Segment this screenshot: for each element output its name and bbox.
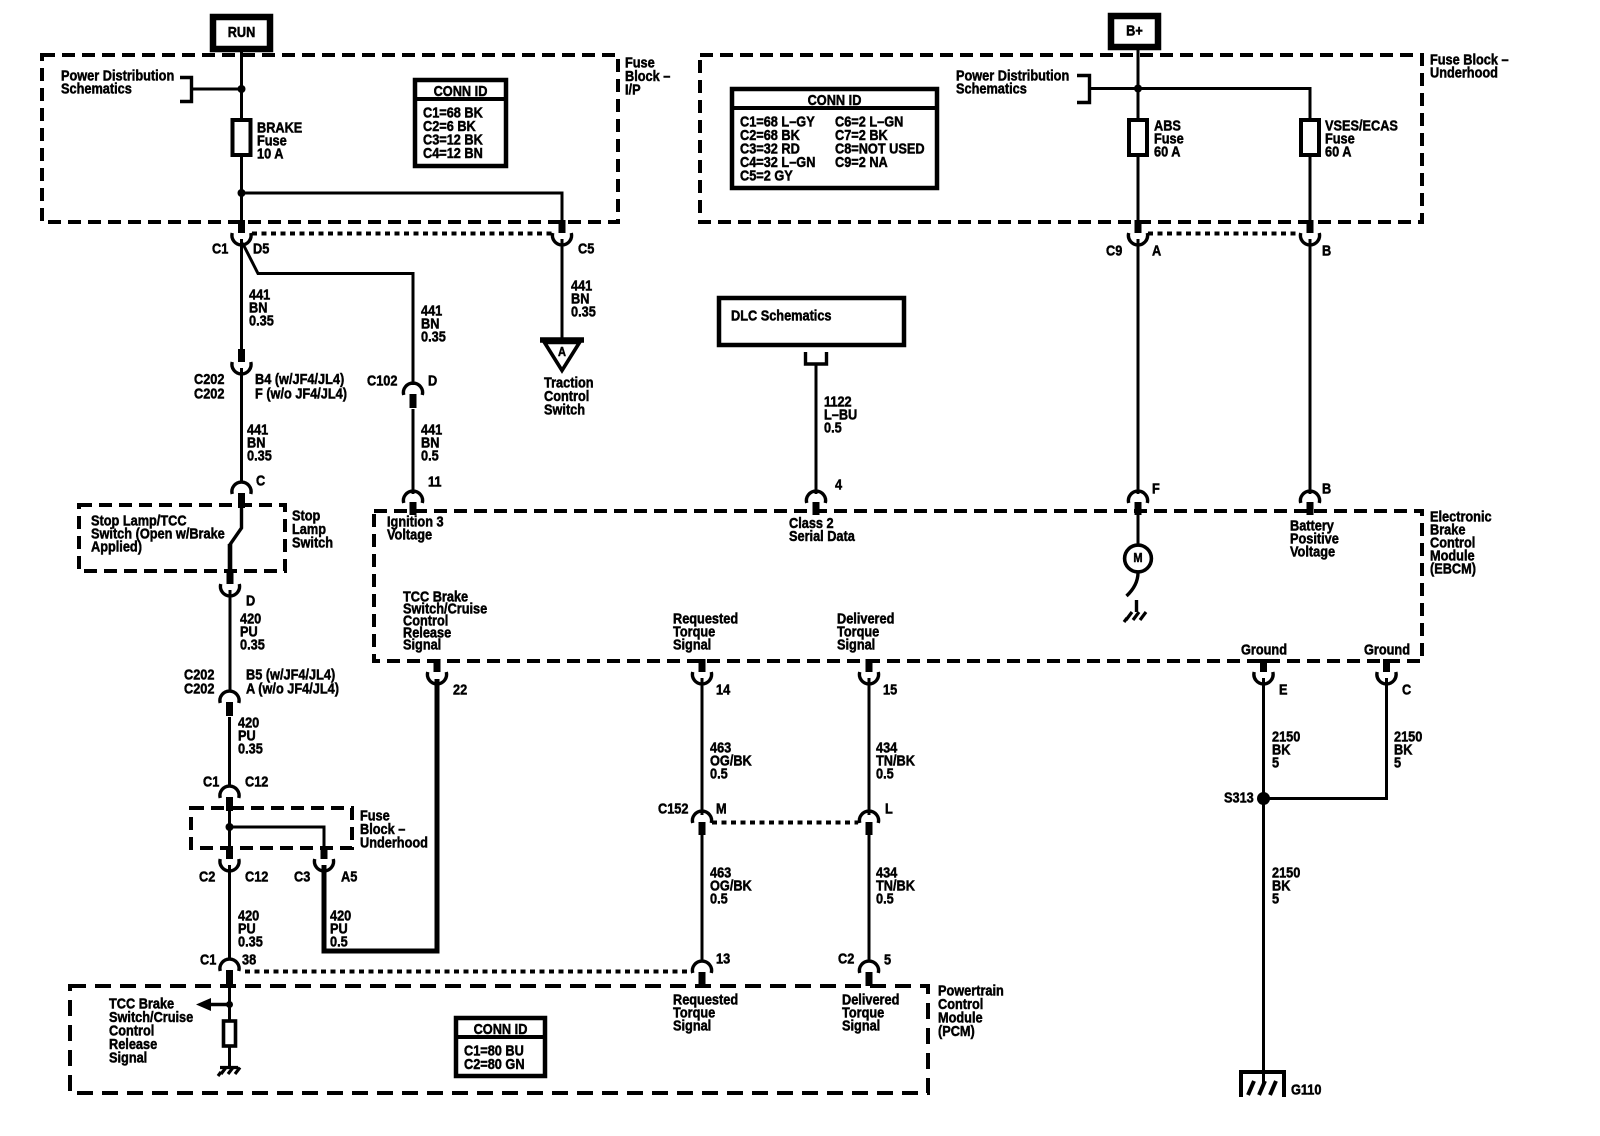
svg-text:RUN: RUN [228, 23, 256, 40]
svg-text:C: C [256, 471, 265, 488]
svg-text:M: M [716, 799, 727, 816]
wire B+ down [1137, 47, 1140, 120]
wire 441 BN 0.35 from C1 D5 down [240, 239, 243, 350]
wire bracket to B+ wire [1090, 87, 1139, 90]
wire 441 BN 0.35 to stop lamp switch [240, 368, 243, 483]
connector C152 M [692, 811, 711, 835]
node junction to C5 branch [238, 189, 246, 197]
svg-text:ABSFuse60 A: ABSFuse60 A [1154, 116, 1184, 159]
Powertrain Control Module dashed box [70, 986, 928, 1093]
dotted connector link C1 38 - 13 [245, 970, 692, 974]
svg-text:M: M [1133, 550, 1142, 565]
wire bracket to RUN wire [192, 88, 242, 91]
wire 463 OG/BK 0.5 upper [701, 678, 704, 815]
svg-text:B4 (w/JF4/JL4)F (w/o JF4/JL4): B4 (w/JF4/JL4)F (w/o JF4/JL4) [255, 370, 347, 402]
svg-text:CONN ID: CONN ID [474, 1020, 528, 1037]
wire ABS fuse to C9 A [1137, 155, 1140, 222]
svg-text:C12: C12 [245, 867, 269, 884]
svg-text:E: E [1279, 680, 1288, 697]
traction control switch triangle A [540, 340, 584, 371]
DLC bracket [806, 352, 827, 364]
svg-text:D5: D5 [253, 239, 270, 256]
ground PCM internal [218, 1068, 240, 1077]
svg-text:C: C [1402, 680, 1411, 697]
wire 420 PU 0.35 third [228, 865, 231, 960]
svg-text:C102: C102 [367, 371, 398, 388]
dotted connector link M-L [712, 821, 858, 825]
fuse BRAKE 10A [233, 120, 251, 155]
Fuse Block - Underhood small dashed box [191, 808, 352, 848]
node junction RUN wire / power distribution tap [238, 85, 246, 93]
wire branch D5 to C102 [243, 243, 414, 385]
svg-text:C1: C1 [200, 950, 217, 967]
svg-text:B5 (w/JF4/JL4)A (w/o JF4/JL4): B5 (w/JF4/JL4)A (w/o JF4/JL4) [246, 665, 339, 696]
B+ box [1111, 16, 1158, 47]
ground EBCM internal [1124, 600, 1146, 622]
svg-text:A5: A5 [341, 867, 358, 884]
svg-text:C202C202: C202C202 [194, 370, 225, 402]
svg-text:S313: S313 [1224, 788, 1254, 805]
svg-text:4: 4 [835, 475, 842, 492]
connector C102 D [403, 383, 422, 408]
pin F [1128, 491, 1147, 515]
wire RUN to fuse [240, 49, 243, 120]
pin 15 [859, 659, 878, 684]
Electronic Brake Control Module dashed box [374, 511, 1422, 661]
wire resistor to ground [228, 1046, 231, 1066]
svg-text:11: 11 [428, 472, 442, 489]
connector D stop lamp out [220, 571, 239, 596]
CONN ID table PCM [456, 1018, 545, 1076]
pin 11 [403, 491, 422, 515]
connector C9 A [1128, 220, 1147, 245]
connector B underhood [1300, 220, 1319, 245]
stop lamp switch blade [230, 507, 242, 546]
svg-text:C3: C3 [294, 867, 311, 884]
svg-text:F: F [1152, 479, 1160, 496]
wire 2150 BK 5 from C [1264, 678, 1387, 799]
node junction fuse block [226, 823, 234, 831]
svg-text:L: L [885, 799, 893, 816]
svg-text:C1: C1 [212, 239, 229, 256]
svg-text:38: 38 [242, 950, 256, 967]
CONN ID table I/P [415, 80, 506, 166]
svg-text:B: B [1322, 479, 1331, 496]
wire VSES fuse to B [1309, 155, 1312, 222]
svg-text:C2: C2 [199, 867, 216, 884]
pin 13 [692, 961, 711, 986]
wire 442 RD 5 [1137, 239, 1140, 494]
svg-text:CONN ID: CONN ID [434, 82, 488, 99]
svg-text:C1: C1 [203, 772, 220, 789]
wire 4042 RD 5 [1309, 239, 1312, 494]
wire 434 TN/BK 0.5 lower [868, 835, 871, 962]
dotted connector link C1-C5 [252, 232, 552, 236]
svg-text:C5: C5 [578, 239, 595, 256]
svg-text:BatteryPositiveVoltage: BatteryPositiveVoltage [1290, 516, 1339, 559]
svg-text:C202C202: C202C202 [184, 665, 215, 696]
power distribution bracket left [180, 78, 192, 102]
Stop Lamp/TCC Switch dashed box [79, 505, 285, 571]
svg-text:B: B [1322, 241, 1331, 258]
wire 2150 BK 5 from E [1262, 678, 1265, 1084]
wire 463 OG/BK 0.5 lower [701, 835, 704, 962]
svg-text:15: 15 [883, 680, 897, 697]
wire 441 BN 0.5 down to pin 11 [412, 409, 415, 494]
svg-text:C2: C2 [838, 949, 855, 966]
wire branch to VSES fuse [1138, 89, 1310, 121]
Fuse Block - Underhood dashed box [700, 55, 1422, 222]
svg-text:Ground: Ground [1241, 640, 1287, 657]
connector C2 C12 [220, 846, 239, 871]
wire jumper to C3 A5 [230, 827, 325, 848]
svg-text:B+: B+ [1126, 21, 1143, 38]
wire inside fuse block [228, 808, 231, 848]
pin 5 C2 [859, 961, 878, 986]
svg-text:A: A [1152, 241, 1161, 258]
wire into PCM [228, 986, 231, 1021]
wire F to pump motor [1137, 511, 1140, 545]
DLC Schematics box [719, 298, 904, 345]
connector C3 A5 [314, 846, 333, 871]
power distribution bracket right [1077, 76, 1090, 103]
wire 420 PU 0.35 [229, 590, 232, 692]
svg-text:G110: G110 [1291, 1080, 1322, 1097]
splice S313 [1257, 792, 1270, 805]
connector C202 lower [220, 691, 239, 716]
RUN box [213, 17, 270, 49]
svg-text:13: 13 [716, 949, 730, 966]
svg-text:22: 22 [453, 680, 467, 697]
svg-text:C12: C12 [245, 772, 269, 789]
resistor PCM [224, 1021, 236, 1046]
node junction arrow tap [226, 1001, 233, 1008]
dotted connector link C9 A-B [1148, 232, 1300, 236]
motor switch blade [1127, 573, 1139, 597]
connector C1 D5 [232, 220, 251, 245]
svg-text:14: 14 [716, 680, 730, 697]
node junction B+ tap [1134, 85, 1142, 93]
connector C1 38 [220, 959, 239, 985]
svg-text:C152: C152 [658, 799, 689, 816]
svg-text:C9: C9 [1106, 241, 1123, 258]
fuse ABS 60A [1129, 120, 1147, 155]
CONN ID table Underhood [732, 89, 937, 188]
pin 22 [427, 659, 446, 684]
pin 14 [692, 659, 711, 684]
pump motor M [1125, 545, 1152, 572]
connector C152 L [859, 811, 878, 835]
pin B [1300, 491, 1319, 515]
Fuse Block - I/P dashed box [42, 55, 618, 222]
connector C stop lamp [232, 482, 251, 508]
pin C [1377, 659, 1396, 684]
connector C5 [552, 220, 571, 245]
wire branch to C5 [242, 193, 563, 222]
svg-text:Ground: Ground [1364, 640, 1410, 657]
svg-text:C1=68 BKC2=6 BKC3=12 BKC4=12 B: C1=68 BKC2=6 BKC3=12 BKC4=12 BN [423, 103, 483, 161]
wire C5 to traction control switch [561, 239, 564, 340]
ground G110 [1241, 1070, 1284, 1097]
wire 420 PU 0.35 second [228, 717, 231, 787]
svg-text:Fuse Block –Underhood: Fuse Block –Underhood [1430, 50, 1509, 80]
connector C202 upper [232, 349, 251, 374]
fuse VSES/ECAS 60A [1301, 120, 1319, 155]
svg-text:D: D [246, 591, 255, 608]
pin E [1254, 659, 1273, 684]
arrow left [196, 998, 230, 1011]
wire 434 TN/BK 0.5 upper [868, 678, 871, 815]
svg-text:CONN ID: CONN ID [808, 91, 862, 108]
wire 1122 L-BU 0.5 [815, 364, 818, 494]
wire 420 PU 0.5 thick to pin 22 path [324, 679, 437, 951]
svg-text:DLC Schematics: DLC Schematics [731, 306, 832, 323]
svg-text:5: 5 [884, 950, 891, 967]
connector C1 C12 [220, 786, 239, 811]
pin 4 [806, 491, 825, 515]
wire fuse to connector C1 [240, 155, 243, 222]
svg-text:C1=80 BUC2=80 GN: C1=80 BUC2=80 GN [464, 1041, 525, 1072]
svg-text:D: D [428, 371, 437, 388]
svg-text:A: A [558, 344, 566, 359]
